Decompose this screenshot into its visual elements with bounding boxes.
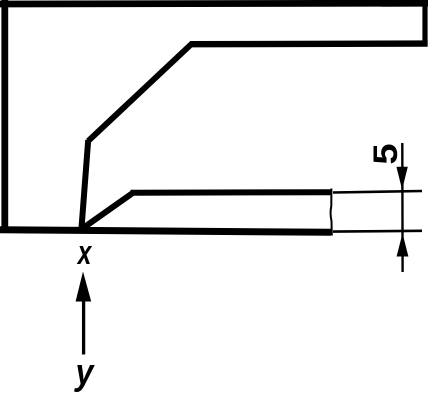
wire bottom extension line <box>333 230 422 233</box>
wire lower plate top line <box>131 189 332 196</box>
svg-text:y: y <box>74 353 95 393</box>
node dimension arrowhead up <box>397 233 409 256</box>
wire upper flange inner line <box>190 40 428 47</box>
wire arrow shaft y-axis <box>82 298 85 355</box>
wire break line <box>331 189 332 236</box>
svg-text:5: 5 <box>366 143 405 164</box>
wire bottom edge line <box>0 230 331 233</box>
node y-axis arrowhead <box>76 272 92 302</box>
node dimension arrowhead down <box>396 167 407 190</box>
wire dimension line <box>401 143 404 272</box>
wire near-vertical weld edge <box>82 140 89 228</box>
svg-text:x: x <box>76 234 93 272</box>
wire top edge line <box>0 0 428 7</box>
wire upper bevel diagonal <box>88 44 192 142</box>
wire lower bevel diagonal <box>81 193 133 230</box>
wire top extension line <box>333 191 422 193</box>
wire right end connector <box>422 1 427 46</box>
wire left edge line <box>1 0 8 232</box>
